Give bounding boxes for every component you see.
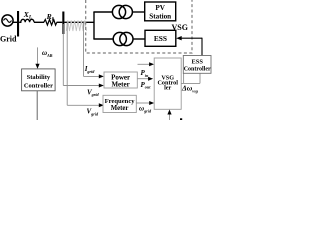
svg-text:ESS: ESS (192, 58, 204, 65)
svg-text:Controller: Controller (184, 66, 211, 73)
wire Rc to bus2 (57, 21, 63, 23)
wire T1 to PV box (132, 11, 144, 13)
wire to transformer T2 (93, 38, 113, 40)
svg-text:ESS: ESS (154, 34, 167, 43)
clipped arrowhead bottom right (180, 118, 182, 120)
stability controller output wire (36, 91, 38, 120)
arrow up into VSG controller (167, 110, 171, 115)
PV Station box (145, 2, 176, 21)
signal delta omega vsg (181, 73, 200, 83)
faded line impedance (66, 20, 86, 31)
wire XL to Rc (34, 21, 44, 23)
VSG dashed area (86, 0, 192, 53)
arrow into stability controller (35, 64, 39, 69)
wire T2 to ESS box (133, 38, 145, 40)
tap I line (84, 22, 100, 76)
wire ESS controller to ESS (176, 36, 202, 56)
ESS Controller box (183, 56, 211, 74)
svg-text:Stability: Stability (27, 74, 51, 81)
grid source G (2, 15, 13, 26)
resistor Rc (44, 20, 57, 26)
signal Pout (138, 78, 149, 80)
inductor XL (19, 19, 34, 22)
svg-text:Station: Station (149, 13, 171, 21)
svg-text:ler: ler (164, 85, 171, 92)
tap V line frequency meter (67, 22, 99, 105)
transformer T2 (113, 32, 133, 45)
svg-text:Meter: Meter (111, 81, 129, 89)
Power Meter box (104, 72, 137, 89)
svg-text:VSG: VSG (172, 23, 188, 32)
wire grid to bus1 (13, 21, 17, 23)
arrow Pout into VSG controller (148, 77, 153, 81)
signal omega grid (136, 102, 150, 104)
wire branch riser (93, 12, 95, 39)
wire to transformer T1 (93, 11, 112, 13)
ESS box (145, 30, 176, 46)
bus bar B1 (17, 11, 19, 37)
signal Pin (138, 63, 150, 65)
wire bus2 to branch point (64, 21, 94, 23)
svg-text:Frequency: Frequency (105, 98, 136, 105)
VSG Controller box (154, 58, 181, 109)
svg-text:Meter: Meter (111, 105, 129, 112)
arrow omega grid into VSG controller (149, 101, 154, 105)
svg-text:PV: PV (155, 4, 165, 12)
Stability Controller box (22, 69, 56, 91)
arrow I into power meter (99, 74, 104, 78)
signal into VSG controller bottom (169, 113, 171, 120)
arrow V into power meter (99, 84, 104, 88)
signal omega vsg into stability controller (37, 47, 39, 64)
bus bar B2 (62, 12, 64, 35)
arrow V into frequency meter (99, 103, 104, 107)
Frequency Meter box (103, 95, 136, 112)
transformer T1 (112, 5, 132, 18)
svg-text:Controller: Controller (24, 83, 53, 90)
arrow Pin into VSG controller (149, 62, 154, 66)
tap V line power meter (63, 24, 99, 86)
svg-text:Grid: Grid (0, 34, 17, 43)
